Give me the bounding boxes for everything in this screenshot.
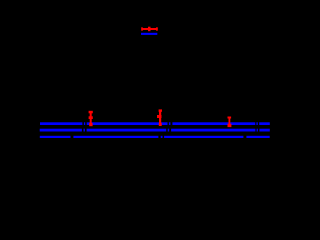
red point P1 with y-errorbar [89, 111, 93, 126]
blue line L1 dash d [169, 122, 171, 125]
blue line L2 segment a [40, 129, 82, 132]
blue line L3 segment d [164, 136, 243, 138]
blue line L3 dash c [161, 136, 163, 138]
blue line L3 segment a [40, 136, 71, 138]
blue line L2 dash d [168, 129, 170, 132]
blue line L2 dash f [257, 129, 258, 132]
blue line L2 segment e [171, 129, 255, 132]
blue line L1 segment a [40, 122, 82, 125]
blue line L2 segment g [259, 129, 269, 132]
blue line L2 segment c [87, 129, 167, 132]
blue segment B0 (top, under red point P0) [141, 33, 157, 35]
blue line L1 segment e [172, 122, 255, 125]
blue line L1 dash f [256, 122, 257, 125]
blue line L1 segment g [259, 122, 270, 125]
blue line L1 dash b [84, 122, 85, 125]
blue line L1 segment c [87, 122, 168, 125]
red point P0 with x-errorbar (top center) [141, 27, 157, 32]
blue line L3 segment e [246, 136, 269, 138]
red point P3 with y-errorbar [228, 117, 232, 128]
blue line L3 segment b [73, 136, 158, 138]
blue line L2 dash b [84, 129, 85, 132]
red point P2 with y-errorbar [157, 109, 162, 126]
